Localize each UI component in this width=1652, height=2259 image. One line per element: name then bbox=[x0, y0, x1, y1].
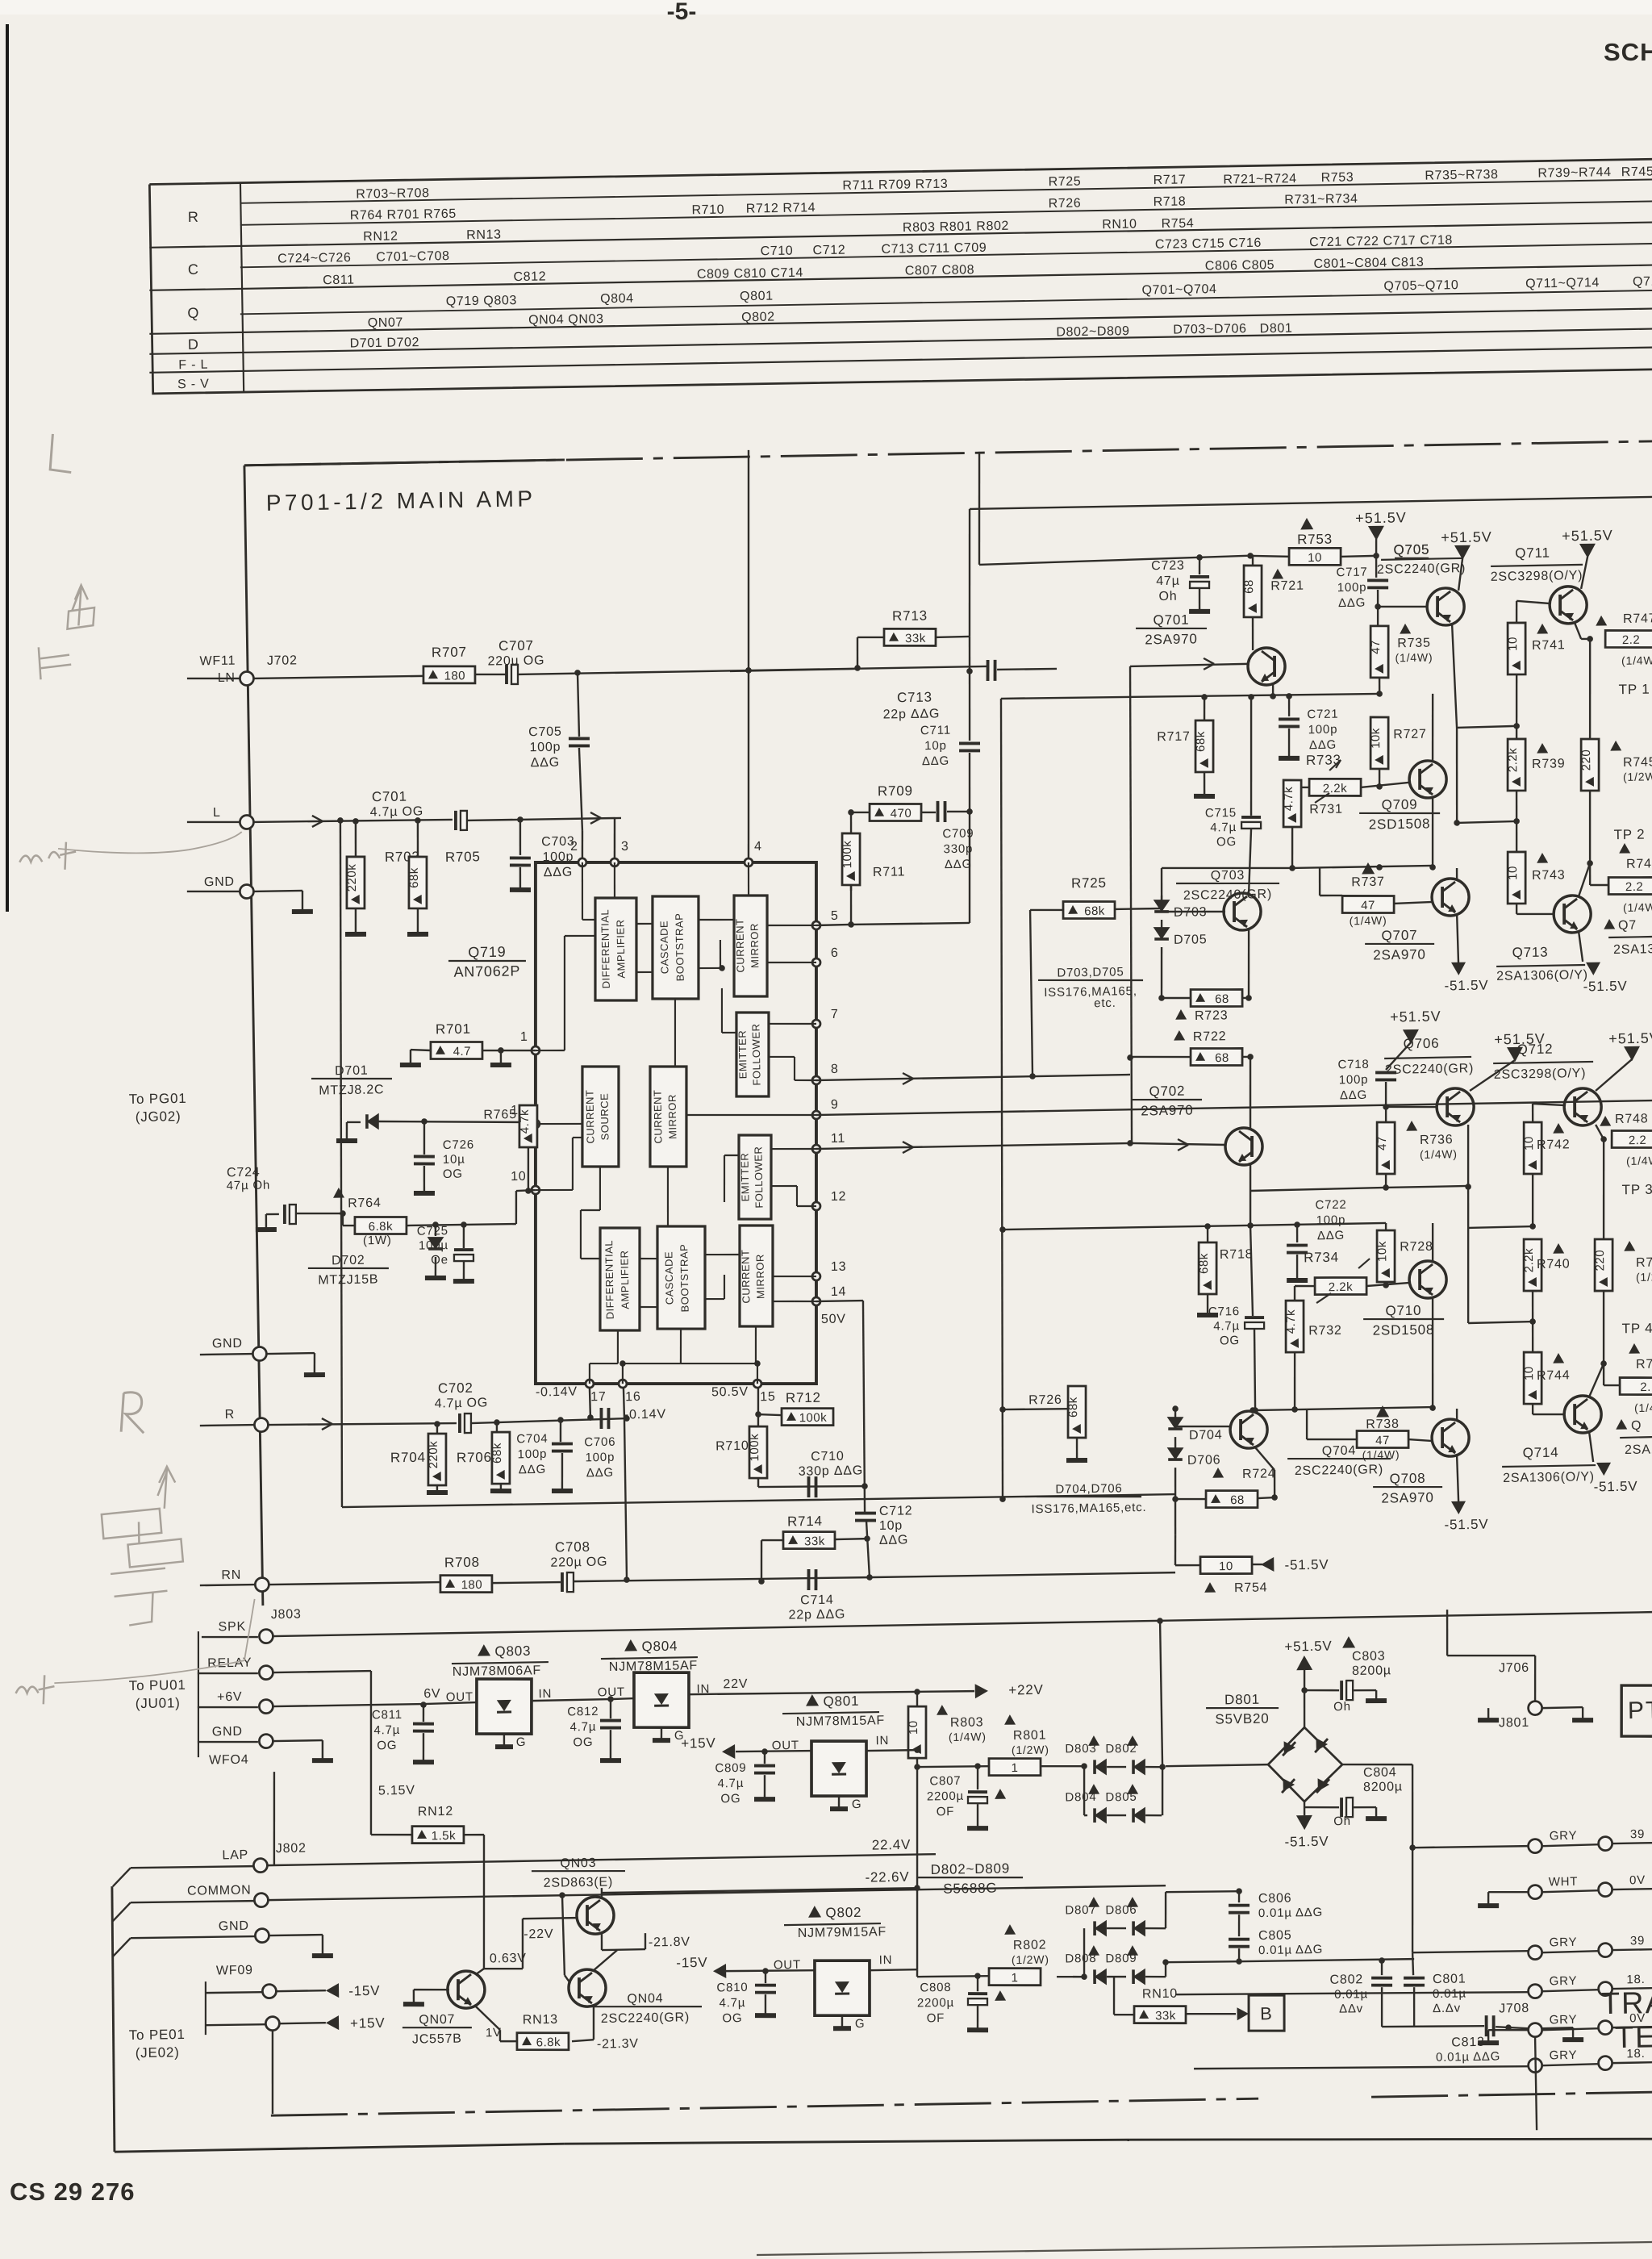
IC pin 1 bbox=[532, 1046, 540, 1054]
IC pin 18 bbox=[532, 1120, 540, 1128]
IC internal bootstrap down to mirror mid bbox=[674, 999, 677, 1067]
svg-text:S - V: S - V bbox=[177, 378, 210, 392]
diode D808 bbox=[1088, 1945, 1099, 1956]
svg-text:D702: D702 bbox=[332, 1254, 365, 1268]
svg-text:2SA13: 2SA13 bbox=[1613, 942, 1652, 957]
wire Q704 base bbox=[1175, 1426, 1232, 1427]
svg-text:J702: J702 bbox=[267, 653, 298, 668]
ground J803 bbox=[312, 1758, 333, 1764]
wire Q704 emitter bbox=[1255, 1447, 1274, 1471]
svg-text:2SC2240(GR): 2SC2240(GR) bbox=[601, 2011, 690, 2026]
diode D806 bbox=[1127, 1897, 1138, 1907]
wire C709 right bbox=[947, 810, 970, 812]
regulator Q804 bbox=[624, 1639, 637, 1651]
wire +6V bbox=[273, 1704, 423, 1706]
capacitor C707 bbox=[505, 665, 509, 684]
power +51.5V main bbox=[1368, 526, 1384, 541]
svg-text:RN13: RN13 bbox=[466, 228, 502, 242]
svg-text:D809: D809 bbox=[1105, 1952, 1137, 1966]
svg-text:-21.3V: -21.3V bbox=[597, 2037, 639, 2052]
svg-text:C801: C801 bbox=[1433, 1972, 1466, 1986]
IC pin 7 bbox=[812, 1020, 820, 1028]
svg-text:R734: R734 bbox=[1304, 1250, 1339, 1266]
wire Q709 emitter down bbox=[1432, 797, 1434, 868]
svg-text:R765: R765 bbox=[483, 1108, 517, 1122]
wire R709 left bbox=[851, 811, 870, 813]
capacitor C813 bbox=[1484, 2015, 1488, 2036]
wire C718 down bbox=[1386, 1082, 1387, 1107]
svg-text:68k: 68k bbox=[1194, 731, 1208, 752]
resistor R713 bbox=[884, 628, 937, 646]
svg-text:Q719: Q719 bbox=[468, 944, 507, 961]
board outline top solid start bbox=[244, 460, 565, 466]
svg-text:R748: R748 bbox=[1615, 1112, 1649, 1126]
svg-text:FOLLOWER: FOLLOWER bbox=[749, 1023, 762, 1085]
svg-text:0.01µ ΔΔG: 0.01µ ΔΔG bbox=[1436, 2049, 1500, 2064]
svg-text:R735~R738: R735~R738 bbox=[1425, 168, 1499, 183]
svg-text:R731~R734: R731~R734 bbox=[1284, 192, 1358, 207]
capacitor C703 bbox=[510, 856, 531, 860]
svg-text:OG: OG bbox=[720, 1792, 740, 1806]
triangle R764 bbox=[333, 1188, 344, 1198]
wire COMMON right bbox=[269, 1885, 1166, 1900]
svg-text:C807 C808: C807 C808 bbox=[905, 263, 975, 278]
capacitor C706 bbox=[599, 1408, 603, 1429]
svg-text:R740: R740 bbox=[1537, 1257, 1571, 1271]
svg-text:C711: C711 bbox=[920, 724, 951, 738]
svg-text:MTZJ15B: MTZJ15B bbox=[318, 1272, 378, 1287]
junction R714 left drop bbox=[758, 1578, 765, 1585]
svg-text:0V: 0V bbox=[1629, 1873, 1646, 1887]
svg-text:Q701: Q701 bbox=[1153, 612, 1189, 628]
svg-text:G: G bbox=[855, 2017, 866, 2031]
wire C813 right to J708 bbox=[1496, 2026, 1528, 2028]
svg-text:2.2: 2.2 bbox=[1629, 1134, 1647, 1147]
wire R724 right bbox=[1258, 1497, 1274, 1498]
power +51.5V Q705 collector bbox=[1454, 545, 1471, 560]
resistor R721 bbox=[1252, 556, 1254, 565]
svg-text:MIRROR: MIRROR bbox=[666, 1094, 679, 1139]
svg-text:2SA970: 2SA970 bbox=[1141, 1102, 1194, 1118]
svg-text:12: 12 bbox=[831, 1190, 847, 1204]
capacitor C808 bbox=[974, 1973, 981, 1979]
power -51.5V Q707 bbox=[1457, 914, 1458, 964]
svg-text:R724: R724 bbox=[1242, 1467, 1276, 1481]
svg-text:C812: C812 bbox=[513, 269, 546, 284]
svg-text:etc.: etc. bbox=[1094, 996, 1116, 1010]
svg-text:R731: R731 bbox=[1309, 803, 1343, 817]
svg-text:2: 2 bbox=[570, 840, 578, 854]
diode D805 bbox=[1127, 1784, 1138, 1794]
svg-text:R753: R753 bbox=[1297, 532, 1333, 548]
junction A2 bbox=[745, 667, 752, 674]
board outline bottom-left vertical bbox=[110, 1886, 116, 2152]
wire pin5 to R711 bbox=[850, 885, 852, 925]
svg-text:QN04: QN04 bbox=[627, 1992, 663, 2006]
svg-text:-51.5V: -51.5V bbox=[1583, 979, 1627, 995]
wire R744 down to Q714 bbox=[1532, 1404, 1534, 1414]
IC pin 15 bbox=[753, 1380, 761, 1388]
svg-text:ΔΔG: ΔΔG bbox=[1309, 738, 1337, 753]
svg-text:R726: R726 bbox=[1049, 197, 1082, 211]
svg-text:CASCADE: CASCADE bbox=[662, 1251, 675, 1305]
svg-text:Q712: Q712 bbox=[1517, 1042, 1554, 1058]
resistor R753 label bbox=[1300, 518, 1313, 530]
svg-text:2.2k: 2.2k bbox=[1506, 748, 1521, 773]
wire R705 to ground bbox=[417, 908, 418, 933]
svg-text:6.8k: 6.8k bbox=[369, 1220, 394, 1234]
scan edge black line left bbox=[6, 24, 9, 912]
svg-text:R744: R744 bbox=[1537, 1368, 1571, 1383]
svg-text:2SA1306(O/Y): 2SA1306(O/Y) bbox=[1496, 968, 1588, 983]
svg-text:C713 C711 C709: C713 C711 C709 bbox=[881, 241, 987, 257]
svg-text:C709: C709 bbox=[942, 827, 974, 841]
svg-text:330p ΔΔG: 330p ΔΔG bbox=[799, 1464, 864, 1478]
svg-text:Q802: Q802 bbox=[825, 1905, 861, 1921]
wire C711 down bbox=[967, 753, 973, 923]
wire x424 vertical bus bbox=[337, 817, 344, 824]
wire pin4 riser to top border bbox=[745, 667, 752, 674]
table subline C1 bbox=[240, 244, 1652, 267]
wire Q804 IN to +22V bbox=[689, 1689, 974, 1696]
wire diode right riser to SPK wire bbox=[1160, 1621, 1162, 1767]
wire R738 to Q708 bbox=[1408, 1439, 1433, 1442]
svg-text:IN: IN bbox=[538, 1687, 552, 1701]
svg-text:D701 D702: D701 D702 bbox=[350, 336, 420, 350]
table line F-L/S-V bbox=[149, 348, 1652, 373]
svg-text:C726: C726 bbox=[443, 1138, 474, 1152]
capacitor C716 bbox=[1245, 1316, 1264, 1320]
svg-text:5.15V: 5.15V bbox=[378, 1784, 415, 1798]
wire D row3 to C806 col bbox=[1165, 1892, 1166, 1928]
svg-text:100p: 100p bbox=[1337, 581, 1367, 595]
svg-text:C710: C710 bbox=[760, 244, 793, 259]
transistor Q702 bbox=[1225, 1128, 1263, 1166]
svg-text:R764: R764 bbox=[348, 1196, 382, 1211]
svg-text:DIFFERENTIAL: DIFFERENTIAL bbox=[603, 1240, 616, 1320]
wire Q802 IN from node bbox=[870, 1969, 917, 1971]
row y1076 upper out bbox=[1292, 866, 1433, 868]
power -51.5V Q708 bbox=[1457, 1455, 1458, 1502]
svg-text:GRY: GRY bbox=[1550, 2048, 1578, 2063]
svg-text:C810: C810 bbox=[716, 1981, 748, 1995]
svg-text:OF: OF bbox=[927, 2011, 945, 2025]
svg-text:2SC2240(GR): 2SC2240(GR) bbox=[1385, 1062, 1474, 1077]
arrow +22V bbox=[975, 1684, 988, 1698]
svg-text:4.7µ OG: 4.7µ OG bbox=[369, 804, 423, 819]
svg-text:2200µ: 2200µ bbox=[917, 1996, 954, 2011]
IC internal wire pin2 col bbox=[582, 862, 583, 920]
wire R722 left bbox=[1130, 1056, 1191, 1059]
svg-text:OG: OG bbox=[1220, 1334, 1240, 1347]
label R745 bbox=[1610, 741, 1621, 751]
power -51.5V R754 bbox=[1252, 1564, 1262, 1566]
wire Q705 emitter down bbox=[1452, 624, 1457, 728]
wire GRY row6 bbox=[1529, 2058, 1542, 2072]
junction C710 right bbox=[861, 1483, 868, 1489]
svg-text:(1/4W): (1/4W) bbox=[1420, 1147, 1458, 1161]
capacitor C717 bbox=[1367, 578, 1388, 582]
svg-text:C710: C710 bbox=[811, 1450, 845, 1464]
svg-text:Δ.Δv: Δ.Δv bbox=[1433, 2002, 1461, 2016]
wire pin15 down bbox=[757, 1388, 759, 1426]
wire C717 to Q705 base node bbox=[1377, 590, 1379, 607]
svg-text:4.7µ: 4.7µ bbox=[717, 1777, 744, 1791]
junction RN riser bbox=[624, 1576, 630, 1583]
resistor R765 bbox=[525, 1119, 532, 1125]
resistor R710 bbox=[749, 1426, 768, 1479]
svg-text:330p: 330p bbox=[943, 842, 973, 857]
svg-text:R710: R710 bbox=[715, 1439, 749, 1454]
svg-text:10: 10 bbox=[1219, 1560, 1233, 1573]
svg-text:(1/2W: (1/2W bbox=[1636, 1270, 1652, 1284]
wire R721 to Q701 emitter bbox=[1252, 617, 1253, 650]
wire RN row right bbox=[867, 1572, 1175, 1578]
transistor Q707 bbox=[1432, 879, 1470, 917]
svg-text:6V: 6V bbox=[423, 1687, 440, 1701]
wire Q711 emitter down bbox=[1575, 623, 1581, 639]
ground R703 bbox=[345, 932, 366, 937]
svg-text:2.2k: 2.2k bbox=[1522, 1248, 1537, 1273]
wire D row4 right bbox=[1165, 1962, 1167, 1977]
wire Q712 base bbox=[1533, 1103, 1563, 1105]
svg-text:C813: C813 bbox=[1451, 2036, 1485, 2050]
riser x1075 bbox=[861, 1301, 867, 1512]
svg-text:7: 7 bbox=[831, 1008, 839, 1021]
resistor R803 bbox=[916, 1692, 918, 1706]
svg-text:C716: C716 bbox=[1208, 1305, 1240, 1319]
svg-text:IN: IN bbox=[879, 1953, 893, 1967]
svg-text:3: 3 bbox=[621, 840, 629, 854]
power +51.5V Q711 bbox=[1579, 544, 1596, 558]
svg-text:33k: 33k bbox=[905, 632, 926, 645]
svg-text:R718: R718 bbox=[1220, 1247, 1254, 1262]
svg-text:2SA970: 2SA970 bbox=[1145, 631, 1198, 647]
wire COMMON drop to QN04 base bbox=[559, 1892, 565, 1898]
resistor R726 bbox=[1003, 1409, 1077, 1410]
svg-text:0.01µ ΔΔG: 0.01µ ΔΔG bbox=[1258, 1943, 1323, 1957]
svg-text:R728: R728 bbox=[1400, 1240, 1433, 1255]
svg-text:D703~D706: D703~D706 bbox=[1173, 322, 1247, 337]
resistor R745 bbox=[1580, 739, 1600, 791]
svg-text:9: 9 bbox=[831, 1098, 839, 1112]
row y1746 lower out bbox=[1253, 1407, 1433, 1410]
svg-text:Q703: Q703 bbox=[1211, 869, 1245, 883]
svg-text:MIRROR: MIRROR bbox=[753, 1254, 766, 1299]
svg-text:+51.5V: +51.5V bbox=[1608, 1029, 1652, 1046]
svg-text:R718: R718 bbox=[1153, 194, 1187, 209]
svg-text:R711 R709 R713: R711 R709 R713 bbox=[842, 177, 948, 193]
pencil arrow sketch lower bbox=[157, 1467, 176, 1509]
wire R753 right bbox=[1341, 556, 1376, 557]
svg-text:R726: R726 bbox=[1028, 1393, 1062, 1408]
IC block current source bbox=[581, 1066, 620, 1167]
svg-text:R801: R801 bbox=[1013, 1728, 1047, 1743]
resistor R707 bbox=[423, 666, 476, 684]
wire +51.5 node down to C717 bbox=[1375, 556, 1377, 578]
wire Q706 emitter down bbox=[1467, 1125, 1470, 1188]
resistor R705 bbox=[408, 857, 428, 909]
svg-text:D807: D807 bbox=[1065, 1903, 1096, 1918]
svg-text:Q719 Q803: Q719 Q803 bbox=[446, 294, 517, 308]
svg-text:ΔΔG: ΔΔG bbox=[922, 754, 949, 769]
wire QN04 collector riser bbox=[594, 1950, 618, 1970]
svg-text:C701~C708: C701~C708 bbox=[376, 249, 450, 265]
svg-text:180: 180 bbox=[461, 1578, 482, 1592]
svg-text:MIRROR: MIRROR bbox=[749, 923, 761, 968]
wire row4 extension to C802 C801 bbox=[1239, 1959, 1414, 1962]
row y900 mid bbox=[1457, 726, 1516, 728]
svg-text:8: 8 bbox=[831, 1063, 839, 1076]
svg-text:Q713: Q713 bbox=[1512, 945, 1548, 961]
svg-text:S5VB20: S5VB20 bbox=[1215, 1710, 1269, 1727]
svg-text:47: 47 bbox=[1361, 899, 1375, 912]
svg-text:ΔΔG: ΔΔG bbox=[1340, 1088, 1367, 1103]
label R723 bbox=[1175, 1009, 1187, 1020]
svg-text:2.: 2. bbox=[1640, 1380, 1651, 1394]
svg-text:D: D bbox=[188, 336, 199, 353]
svg-text:D706: D706 bbox=[1187, 1453, 1221, 1468]
svg-text:OG: OG bbox=[377, 1739, 397, 1752]
svg-text:22p ΔΔG: 22p ΔΔG bbox=[788, 1607, 845, 1622]
svg-text:R733: R733 bbox=[1306, 752, 1341, 768]
svg-text:GRY: GRY bbox=[1550, 1829, 1578, 1844]
svg-text:R710: R710 bbox=[691, 203, 724, 218]
svg-text:B: B bbox=[1260, 2003, 1273, 2023]
IC internal bottom rail to pins 15 16 17 bbox=[617, 1330, 618, 1363]
svg-text:Q801: Q801 bbox=[823, 1693, 859, 1710]
wire LAP right bbox=[268, 1854, 936, 1865]
wire QN07 base bbox=[414, 1989, 449, 1990]
label R803 bbox=[937, 1705, 948, 1715]
capacitor C702 bbox=[458, 1413, 462, 1433]
svg-text:68: 68 bbox=[1215, 992, 1229, 1006]
svg-text:TE: TE bbox=[1615, 2020, 1652, 2055]
wire R741 down bbox=[1516, 674, 1518, 739]
svg-text:D703: D703 bbox=[1174, 905, 1208, 920]
svg-text:8200µ: 8200µ bbox=[1363, 1780, 1403, 1794]
svg-text:68: 68 bbox=[1242, 579, 1256, 594]
svg-text:R738: R738 bbox=[1366, 1418, 1400, 1432]
svg-text:4.7µ: 4.7µ bbox=[719, 1996, 745, 2011]
IC pin 2 stub bbox=[582, 831, 582, 862]
svg-text:ISS176,MA165,etc.: ISS176,MA165,etc. bbox=[1031, 1501, 1146, 1516]
pencil wF scribble lower bbox=[15, 1675, 55, 1705]
wire GRY row1 bbox=[1528, 1839, 1541, 1852]
svg-text:C805: C805 bbox=[1258, 1928, 1292, 1943]
wire A main bbox=[730, 669, 857, 671]
connector -15V WF09 bbox=[206, 1992, 262, 1993]
IC block current mirror lower bbox=[738, 1225, 774, 1326]
regulator Q802 bbox=[808, 1906, 821, 1918]
svg-text:D806: D806 bbox=[1105, 1903, 1137, 1918]
svg-text:R739: R739 bbox=[1532, 757, 1566, 771]
svg-text:C713: C713 bbox=[897, 690, 932, 706]
svg-text:WHT: WHT bbox=[1549, 1875, 1579, 1889]
brace J803 bbox=[196, 1631, 200, 1757]
wire R733 right to Q709 base bbox=[1361, 783, 1408, 787]
svg-text:+51.5V: +51.5V bbox=[1355, 509, 1407, 526]
wire pin9 row bbox=[816, 1100, 1652, 1115]
svg-text:QN04 QN03: QN04 QN03 bbox=[528, 312, 604, 328]
wire R708 to C708 bbox=[492, 1582, 561, 1584]
svg-text:8200µ: 8200µ bbox=[1352, 1664, 1391, 1678]
svg-text:Q: Q bbox=[187, 305, 199, 321]
capacitor C715 bbox=[1241, 816, 1261, 820]
transistor Q701 bbox=[1248, 648, 1286, 686]
wire Q710 collector up bbox=[1432, 1223, 1433, 1262]
IC block differential amplifier lower bbox=[599, 1227, 641, 1331]
svg-text:2.2k: 2.2k bbox=[1323, 782, 1348, 796]
svg-text:Q711~Q714: Q711~Q714 bbox=[1525, 276, 1600, 291]
resistor R714 bbox=[783, 1530, 836, 1549]
regulator Q803 bbox=[478, 1644, 490, 1656]
svg-text:+15V: +15V bbox=[681, 1735, 716, 1752]
svg-text:2SD1508: 2SD1508 bbox=[1373, 1322, 1435, 1338]
table column divider bbox=[240, 183, 244, 392]
svg-text:1: 1 bbox=[520, 1030, 528, 1044]
capacitor C725 bbox=[462, 1225, 465, 1248]
wire R803 down bbox=[916, 1758, 919, 1767]
supply wire y695 bbox=[979, 556, 1247, 565]
resistor R746 bbox=[1594, 1239, 1613, 1292]
svg-text:G: G bbox=[516, 1735, 527, 1749]
resistor R741 bbox=[1507, 623, 1526, 675]
svg-text:100µ: 100µ bbox=[419, 1238, 448, 1253]
svg-text:22p ΔΔG: 22p ΔΔG bbox=[882, 707, 940, 721]
junction +51.5 node bbox=[1373, 553, 1379, 559]
resistor R704 bbox=[436, 1424, 439, 1434]
diode D704 bbox=[1174, 1409, 1177, 1418]
label R742 bbox=[1553, 1123, 1564, 1134]
svg-text:C701: C701 bbox=[372, 789, 407, 805]
IC pin16 stub down bbox=[624, 1388, 624, 1418]
svg-text:G: G bbox=[852, 1798, 862, 1811]
svg-text:TP 2: TP 2 bbox=[1613, 827, 1645, 843]
svg-text:R712 R714: R712 R714 bbox=[746, 201, 816, 215]
svg-text:R704: R704 bbox=[390, 1450, 426, 1466]
svg-text:D808: D808 bbox=[1065, 1952, 1096, 1966]
svg-text:D802: D802 bbox=[1105, 1742, 1137, 1756]
svg-text:2SC2240(GR): 2SC2240(GR) bbox=[1377, 562, 1466, 577]
wire Q703 base bbox=[1162, 911, 1225, 913]
wire y1746 to R738 bbox=[1306, 1409, 1307, 1439]
board outline top dash-dot bbox=[244, 441, 1652, 466]
svg-text:R721: R721 bbox=[1270, 579, 1304, 594]
svg-text:R703~R708: R703~R708 bbox=[356, 186, 430, 202]
svg-text:2.2: 2.2 bbox=[1622, 633, 1641, 647]
svg-text:Q705~Q710: Q705~Q710 bbox=[1383, 278, 1458, 294]
wire GRY row5 bbox=[1528, 2023, 1541, 2036]
ground J802 bbox=[312, 1953, 333, 1959]
svg-text:Q804: Q804 bbox=[600, 292, 634, 307]
IC internal bootstrap lower to mirror lower bbox=[705, 1254, 740, 1255]
ground C723 bbox=[1189, 608, 1210, 614]
svg-text:BOOTSTRAP: BOOTSTRAP bbox=[678, 1244, 690, 1313]
ground J708 bbox=[1542, 2027, 1573, 2028]
resistor R731 bbox=[1283, 780, 1302, 828]
svg-text:OG: OG bbox=[1216, 835, 1237, 849]
svg-text:R708: R708 bbox=[444, 1555, 480, 1571]
table subline R2 bbox=[240, 201, 1652, 224]
resistor R717 bbox=[1201, 694, 1208, 700]
IC internal wire bootstrap to mirror upper bbox=[699, 919, 734, 920]
wire Q703 emitter down bbox=[1248, 929, 1250, 998]
box B bbox=[1248, 1994, 1284, 2031]
svg-text:68k: 68k bbox=[1197, 1253, 1211, 1274]
svg-text:2SC3298(O/Y): 2SC3298(O/Y) bbox=[1494, 1067, 1587, 1082]
svg-text:Q714: Q714 bbox=[1522, 1445, 1558, 1461]
